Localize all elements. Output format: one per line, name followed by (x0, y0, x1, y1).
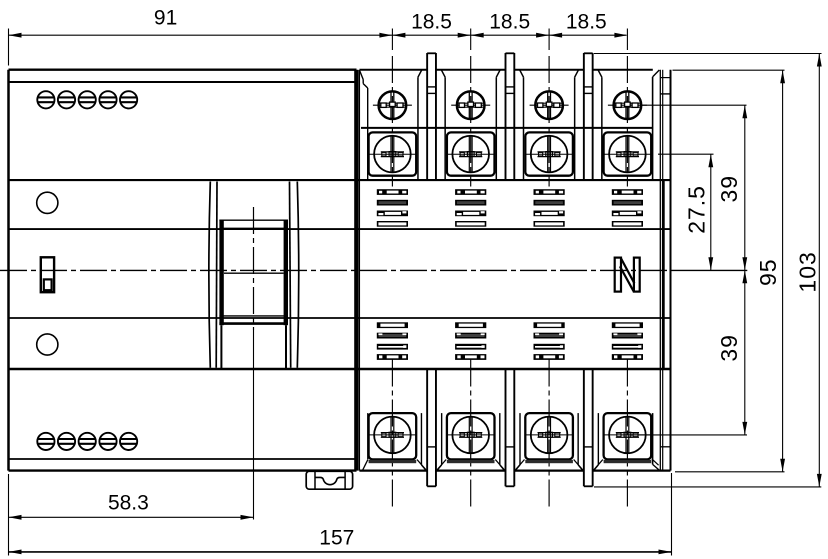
handle window (219, 220, 223, 326)
pole 2 lower terminal box (447, 413, 495, 459)
pole 1 upper terminal box (369, 132, 417, 175)
pole 3 vent slots top band (534, 189, 565, 195)
divider 3 top structure (574, 77, 576, 180)
svg-text:91: 91 (154, 7, 177, 30)
right extension lines (594, 53, 822, 55)
bottom edge right section segments (359, 470, 427, 472)
svg-text:27.5: 27.5 (684, 185, 710, 234)
svg-text:95: 95 (755, 258, 781, 286)
pole 1 vent slots top band (377, 189, 408, 195)
right section top edge segments (359, 69, 427, 71)
pole 2 upper terminal screw (457, 91, 485, 119)
handle outer frame (209, 182, 210, 368)
svg-text:157: 157 (319, 527, 354, 550)
pole 1 centerline upper (391, 56, 393, 187)
pole 1 lower terminal box (369, 413, 417, 459)
divider 3 top tab (583, 53, 585, 180)
pole 4 vent slots top band (612, 189, 643, 195)
svg-text:39: 39 (716, 175, 742, 203)
divider 2 bottom structure (499, 413, 501, 465)
dim 103 vertical (818, 54, 820, 487)
pole 4 centerline upper (626, 56, 628, 187)
pole 3 main screw top (531, 136, 568, 173)
pole 4 vent slots bottom band (612, 322, 643, 328)
toggle indicator (41, 257, 54, 292)
divider 2 bottom tab (505, 369, 507, 487)
DIN rail clip (306, 471, 352, 489)
handle skirt below window (220, 325, 222, 369)
right section right-edge structure (659, 70, 661, 471)
pole 2 main screw bottom (452, 417, 489, 454)
pole 4 centerline lower (626, 360, 628, 508)
pole 4 upper terminal screw (614, 91, 642, 119)
mounting hole upper (37, 192, 58, 213)
pole 1 dimension extension line (391, 29, 393, 51)
divider 3 bottom structure (577, 413, 579, 465)
pole 1 upper terminal screw (379, 91, 407, 119)
pole 2 dimension extension line (470, 29, 472, 51)
dim 39 vertical top and bottom (744, 105, 746, 435)
pole 3 lower terminal box (525, 413, 573, 459)
pole 2 main screw top (452, 136, 489, 173)
pole 4 lower terminal box (604, 413, 652, 459)
bottom dim 157 (9, 551, 672, 553)
divider 1 top tab (426, 53, 428, 180)
pole 1 main screw top (374, 136, 411, 173)
right section left edge and notch (358, 70, 360, 471)
left module bottom screw row (37, 433, 54, 450)
pole4 right wall top (652, 77, 654, 180)
pole 1 main screw bottom (374, 417, 411, 454)
pole 4 main screw bottom (609, 417, 646, 454)
handle toggle line (224, 272, 284, 274)
pole 3 vent slots bottom band (534, 322, 565, 328)
divider 1 top structure (417, 77, 419, 180)
svg-text:103: 103 (795, 251, 821, 292)
svg-text:18.5: 18.5 (566, 11, 607, 34)
box band top line (361, 127, 652, 129)
divider 2 top structure (495, 77, 497, 180)
pole 3 centerline upper (548, 56, 550, 187)
pole 3 dimension extension line (548, 29, 550, 51)
dim 27.5 vertical (710, 154, 712, 270)
bottom-left foot of right section (363, 459, 369, 470)
pole 4 main screw top (609, 136, 646, 173)
dim 95 vertical (782, 70, 784, 472)
pole 3 upper terminal screw (535, 91, 563, 119)
pole 2 centerline lower (470, 360, 472, 508)
svg-text:18.5: 18.5 (489, 11, 530, 34)
pole 1 centerline lower (391, 360, 393, 508)
svg-text:18.5: 18.5 (411, 11, 452, 34)
pole 2 vent slots bottom band (455, 322, 486, 328)
pole 2 upper terminal box (447, 132, 495, 175)
neutral label N (615, 258, 640, 292)
divider 3 bottom tab (583, 369, 585, 487)
pole 3 centerline lower (548, 360, 550, 508)
handle vertical centerline (253, 207, 255, 330)
bottom dim 58.3 (9, 516, 254, 518)
pole 2 centerline upper (470, 56, 472, 187)
divider 1 bottom structure (420, 413, 422, 465)
pole 3 upper terminal box (525, 132, 573, 175)
left module top screw row (37, 91, 54, 108)
horizontal centerline (0, 269, 676, 271)
svg-text:39: 39 (716, 334, 742, 362)
pole4 right wall bottom (652, 413, 654, 464)
pole 4 dimension extension line (626, 29, 628, 51)
pole 3 main screw bottom (531, 417, 568, 454)
pole 4 upper terminal box (604, 132, 652, 175)
top dimension line 91 and 18.5 (9, 34, 627, 36)
enclosure left module outline (9, 68, 357, 70)
pole 1 vent slots bottom band (377, 322, 408, 328)
svg-text:58.3: 58.3 (108, 491, 149, 514)
divider 1 bottom tab (426, 369, 428, 487)
horizontal band lines (9, 179, 671, 181)
divider 2 top tab (505, 53, 507, 180)
mounting hole lower (37, 334, 58, 355)
pole 2 vent slots top band (455, 189, 486, 195)
